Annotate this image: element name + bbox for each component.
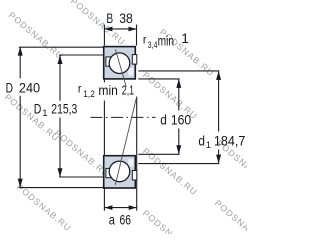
wire d1 dimension line xyxy=(218,71,220,163)
arrow a left xyxy=(105,205,113,210)
contact angle line top xyxy=(115,49,126,86)
svg-text:1: 1 xyxy=(181,31,189,46)
wire D1 bottom extension line xyxy=(59,176,104,178)
svg-text:160: 160 xyxy=(171,112,192,127)
svg-text:240: 240 xyxy=(19,80,40,95)
wire B left extension line xyxy=(103,25,105,46)
wire D top extension line xyxy=(19,46,104,48)
arrow d up xyxy=(176,79,181,88)
contact angle line bottom xyxy=(115,97,136,185)
wire a right extension line xyxy=(136,97,138,211)
svg-text:38: 38 xyxy=(119,11,133,26)
svg-text:B: B xyxy=(106,11,113,26)
wire D dimension line xyxy=(19,47,21,187)
arrow D up xyxy=(18,47,23,56)
arrowheads xyxy=(18,27,221,210)
arrow d down xyxy=(176,145,181,154)
svg-text:66: 66 xyxy=(120,213,132,228)
wire B dimension line xyxy=(104,28,136,30)
arrow d1 down xyxy=(216,155,221,164)
wire d1 top extension line xyxy=(138,70,219,72)
wire B right extension line / r3,4 leader xyxy=(136,25,138,46)
svg-text:D: D xyxy=(6,80,13,95)
wire d bottom extension line xyxy=(138,153,179,155)
svg-text:r: r xyxy=(78,81,82,95)
centerline axis xyxy=(91,116,156,118)
arrow D1 down xyxy=(58,168,63,177)
wire a left extension line xyxy=(103,79,105,210)
wire a dimension line xyxy=(104,207,136,209)
svg-text:3,4: 3,4 xyxy=(148,40,158,51)
svg-text:1: 1 xyxy=(206,140,211,151)
svg-text:d: d xyxy=(198,133,205,148)
svg-text:r: r xyxy=(143,32,147,46)
svg-text:2,1: 2,1 xyxy=(122,84,134,98)
wire d top extension line xyxy=(138,78,179,80)
svg-text:a: a xyxy=(109,213,115,228)
svg-text:d: d xyxy=(160,112,167,127)
svg-text:D: D xyxy=(34,101,42,116)
arrow D1 up xyxy=(58,55,63,64)
arrow a right xyxy=(129,205,137,210)
bearing top cross-section xyxy=(104,47,137,79)
wire D1 top extension line xyxy=(59,54,104,56)
bearing dimension drawing 7032 xyxy=(0,0,247,234)
wire d dimension line xyxy=(178,79,180,154)
svg-text:min: min xyxy=(158,33,174,48)
svg-text:1,2: 1,2 xyxy=(83,89,95,100)
wire D bottom extension line xyxy=(19,187,104,189)
arrow D down xyxy=(18,179,23,188)
bearing bottom cross-section xyxy=(104,156,137,188)
svg-text:min: min xyxy=(98,83,118,98)
arrow B right xyxy=(129,27,137,32)
arrow B left xyxy=(105,27,113,32)
wire d1 bottom extension line xyxy=(138,163,219,165)
arrow d1 up xyxy=(216,71,221,80)
wire D1 dimension line xyxy=(59,55,61,176)
svg-text:215,3: 215,3 xyxy=(51,101,77,116)
svg-text:1: 1 xyxy=(42,108,47,119)
svg-text:184,7: 184,7 xyxy=(214,133,246,148)
